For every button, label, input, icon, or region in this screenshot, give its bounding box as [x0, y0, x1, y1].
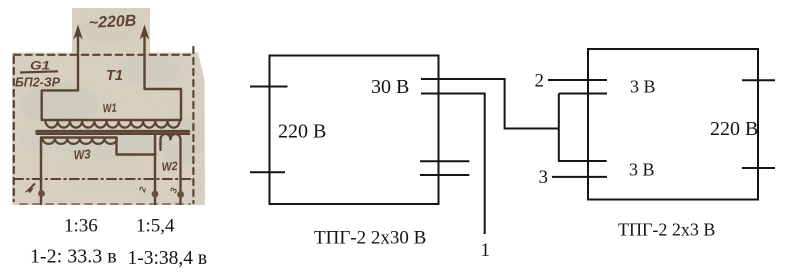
svg-text:Т1: Т1	[106, 67, 123, 84]
terminal digit 1 (small arrow mark)	[28, 184, 35, 193]
svg-text:1:36: 1:36	[64, 216, 98, 237]
dashed frame left	[13, 57, 15, 201]
terminal: node 3 lead	[552, 176, 607, 178]
arrowhead of left 220V lead	[74, 26, 82, 38]
svg-text:220 В: 220 В	[278, 121, 326, 143]
svg-text:30 В: 30 В	[371, 76, 409, 98]
svg-text:~220В: ~220В	[88, 13, 136, 32]
terminal: bracket bottom branch	[558, 160, 607, 162]
wire: right 220V lead with arrow	[145, 33, 182, 120]
svg-text:3 В: 3 В	[629, 160, 655, 180]
wire from 30V terminal to right box bracket	[421, 79, 559, 129]
dashed frame top	[14, 54, 193, 56]
arrowhead of right 220V lead	[141, 26, 149, 38]
svg-text:220 В: 220 В	[710, 118, 758, 140]
svg-text:1: 1	[481, 240, 491, 261]
terminal dot 2	[152, 191, 159, 198]
terminal: node 2 lead	[548, 79, 607, 81]
winding W3 top line	[41, 136, 117, 138]
wire W2 left leg to terminal 2	[154, 136, 156, 205]
chassis dash-dot line	[14, 178, 193, 180]
svg-text:1-2: 33.3 в: 1-2: 33.3 в	[30, 246, 117, 268]
transformer box TPG-2 2x3V	[588, 49, 758, 200]
svg-text:W3: W3	[73, 146, 92, 162]
terminal: left box primary bottom	[250, 171, 285, 173]
svg-text:БП2-ЗР: БП2-ЗР	[15, 75, 60, 90]
terminal dot 3	[177, 191, 184, 198]
terminal: bracket top branch	[559, 93, 607, 95]
terminal pair: left box lower secondary	[420, 160, 469, 162]
svg-text:2: 2	[535, 71, 545, 92]
svg-text:ТПГ-2 2х3 В: ТПГ-2 2х3 В	[618, 220, 715, 240]
wire: left 220V lead with arrow	[42, 33, 78, 120]
svg-text:3 В: 3 В	[630, 77, 656, 97]
winding W1 top line	[43, 119, 181, 121]
transformer core line 1	[37, 130, 190, 133]
photo paper background	[0, 0, 210, 210]
svg-text:1:5,4: 1:5,4	[136, 216, 175, 237]
wire W3 right end jog	[117, 138, 156, 155]
dashed frame right	[192, 47, 194, 203]
transformer core line 2	[37, 133, 190, 136]
svg-text:ТПГ-2 2х30 В: ТПГ-2 2х30 В	[314, 227, 426, 248]
dashed frame bottom	[20, 203, 190, 205]
terminal: left box primary top	[250, 86, 288, 88]
svg-text:3: 3	[539, 167, 549, 188]
svg-text:W1: W1	[102, 101, 117, 116]
terminal: right box primary top	[742, 79, 775, 81]
underline under G1	[20, 71, 58, 72]
winding W1 scallops	[46, 121, 180, 128]
wire W3 left leg to terminal 1	[40, 138, 42, 204]
winding W3 scallops	[43, 139, 117, 144]
transformer box TPG-2 2x30V	[270, 56, 439, 205]
wire to node 1	[421, 94, 485, 235]
terminal: right box primary bottom	[742, 167, 775, 169]
bracket joining the two 3V windings	[558, 94, 560, 162]
winding W2 arcs	[161, 134, 181, 204]
terminal dot 1	[38, 190, 45, 197]
svg-text:1-3:38,4 в: 1-3:38,4 в	[128, 248, 208, 269]
svg-text:W2: W2	[161, 159, 178, 174]
